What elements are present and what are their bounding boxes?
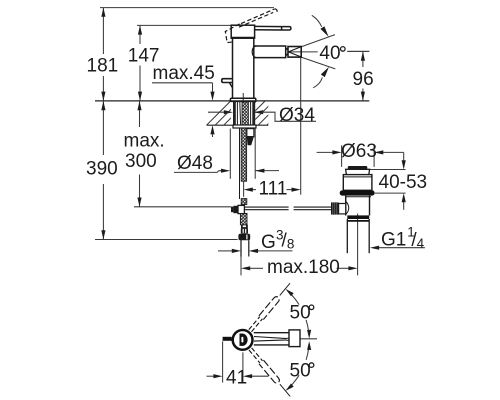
- svg-text:Ø63: Ø63: [341, 141, 377, 162]
- svg-text:max.: max.: [124, 131, 165, 152]
- svg-text:Ø48: Ø48: [177, 153, 213, 174]
- svg-text:111: 111: [259, 178, 288, 199]
- svg-text:300: 300: [125, 151, 157, 172]
- svg-text:8: 8: [287, 236, 295, 251]
- svg-text:50: 50: [290, 303, 311, 324]
- svg-text:390: 390: [86, 159, 118, 180]
- svg-text:Ø34: Ø34: [279, 105, 315, 126]
- svg-text:40-53: 40-53: [379, 172, 428, 193]
- svg-text:max.45: max.45: [153, 63, 215, 84]
- svg-text:181: 181: [87, 56, 119, 77]
- svg-text:96: 96: [353, 69, 374, 90]
- svg-text:4: 4: [417, 236, 425, 251]
- svg-text:41: 41: [226, 368, 247, 389]
- svg-text:G: G: [261, 232, 276, 253]
- svg-text:G1: G1: [381, 229, 406, 250]
- svg-text:50: 50: [290, 360, 311, 381]
- svg-text:max.180: max.180: [267, 257, 340, 278]
- svg-text:40: 40: [319, 43, 340, 64]
